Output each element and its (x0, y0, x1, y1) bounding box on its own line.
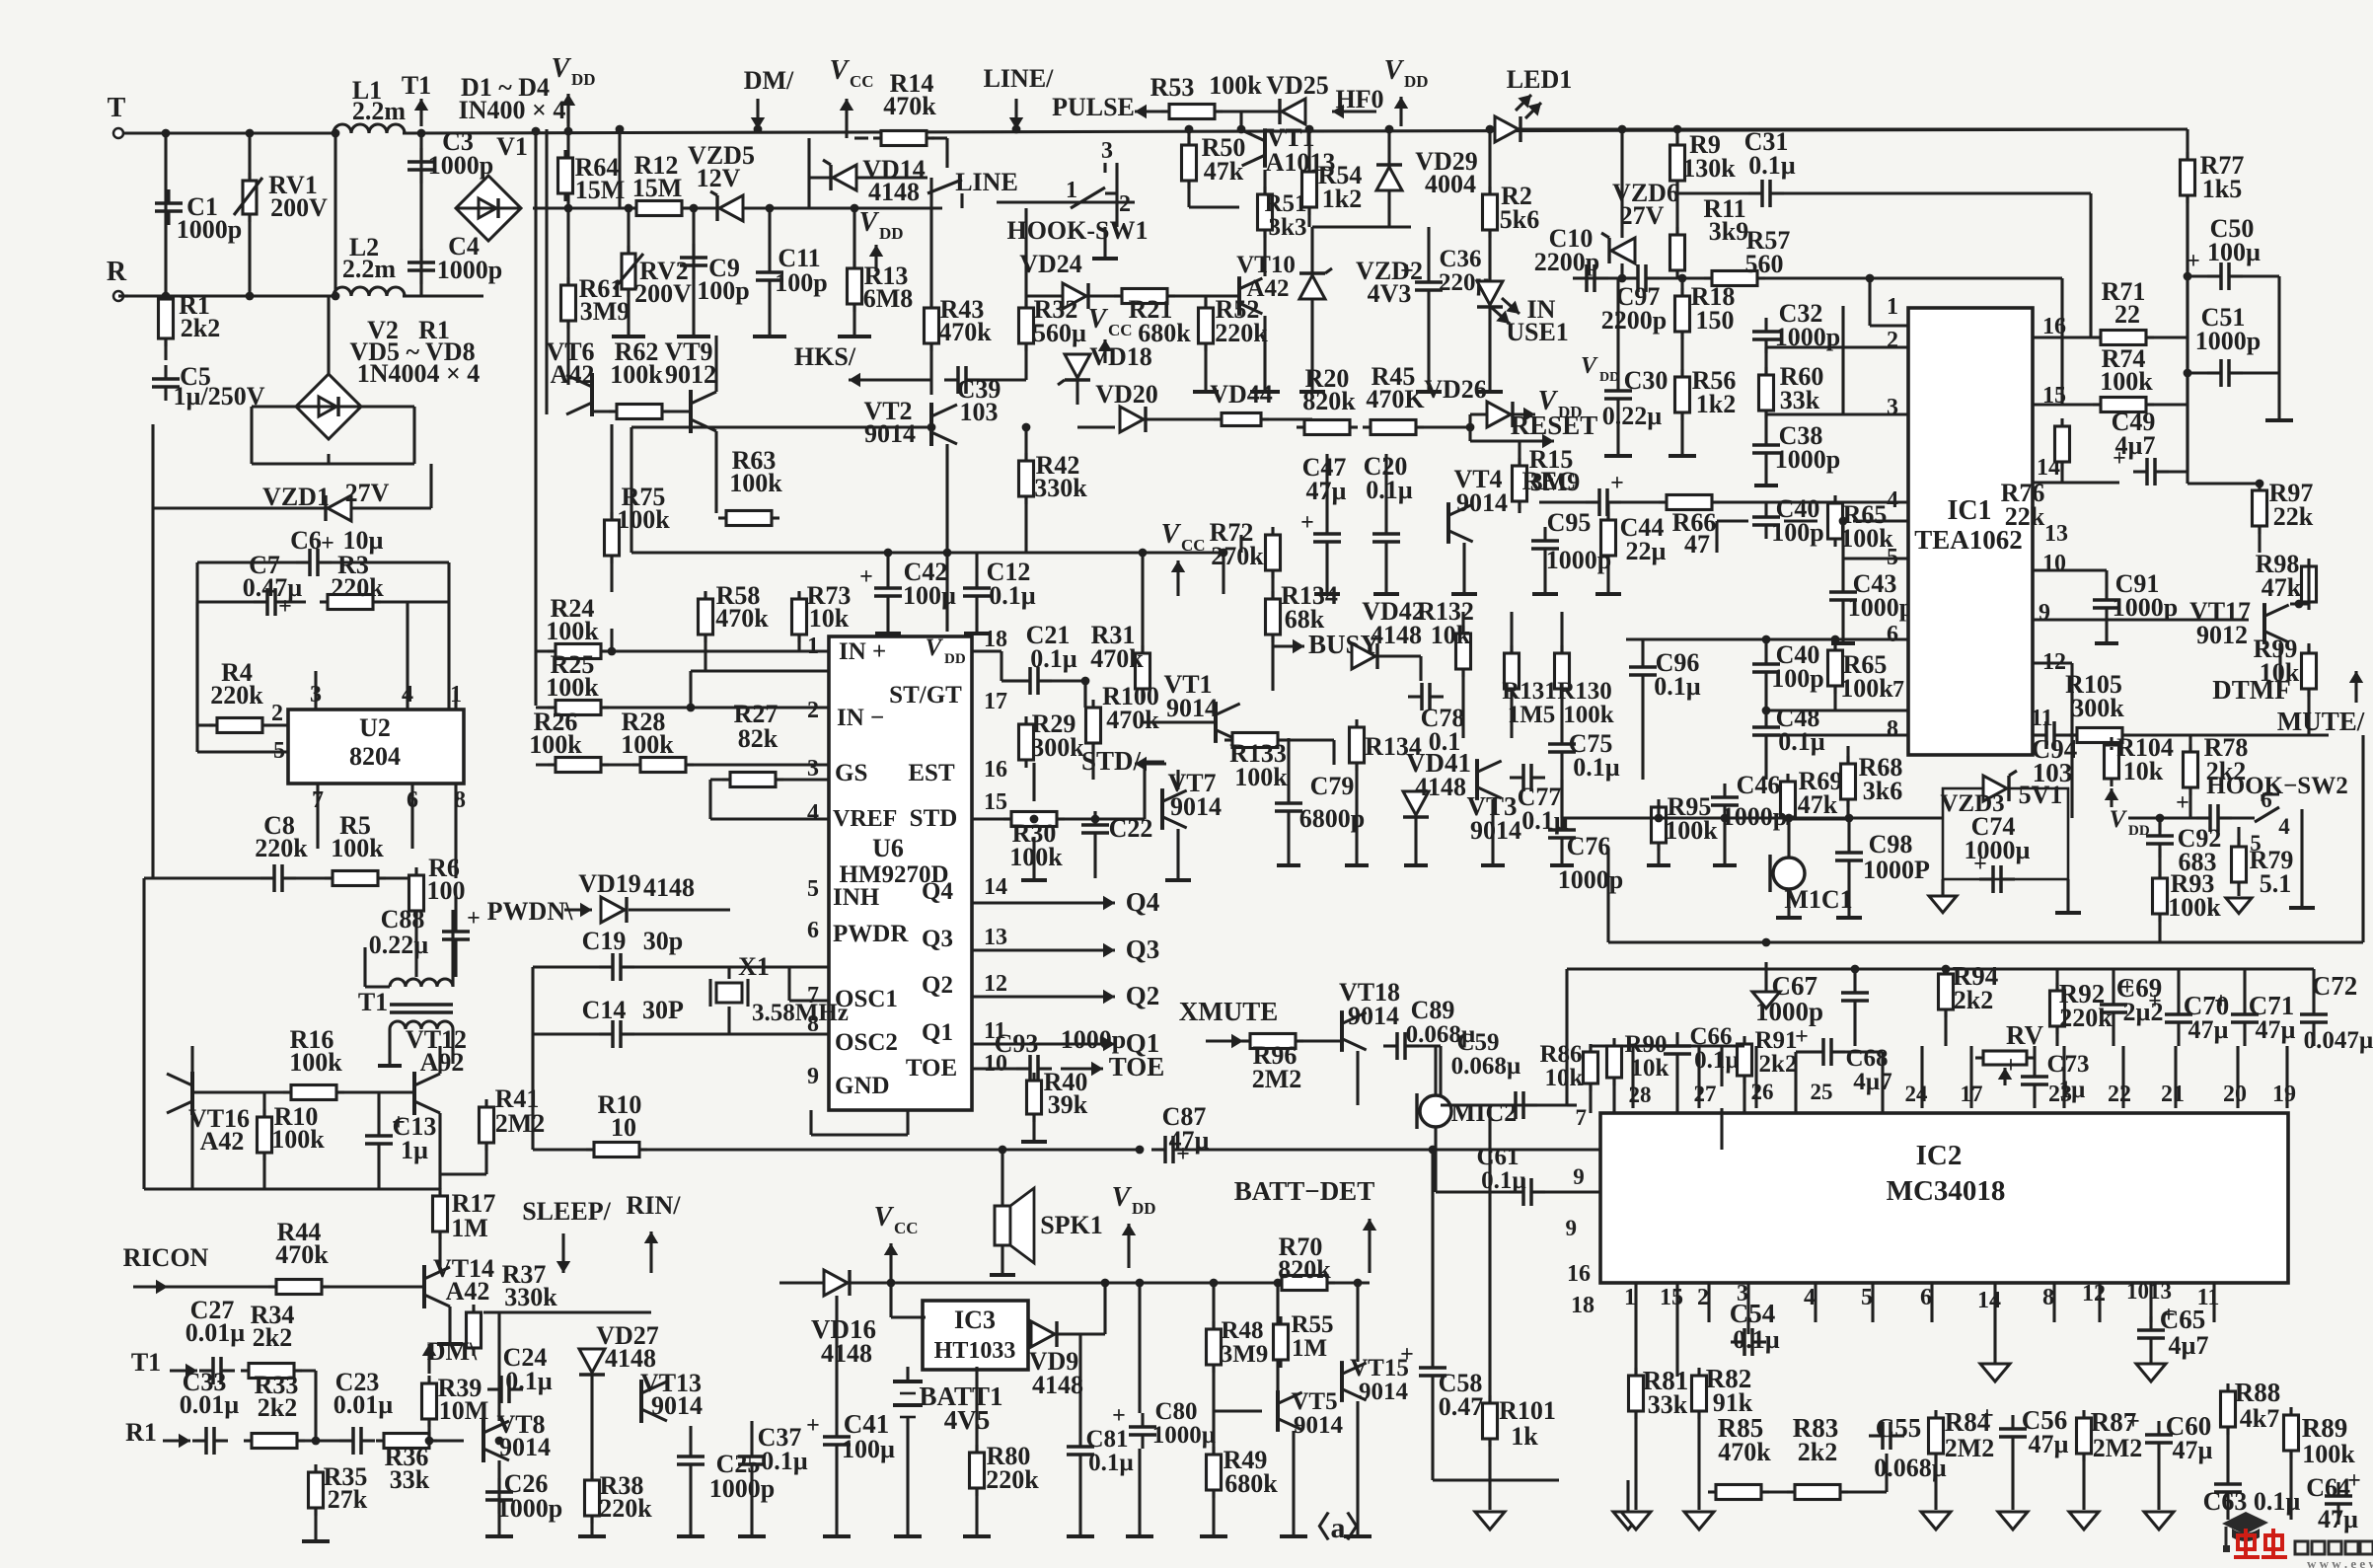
wire (1675, 1322, 1678, 1377)
diode VD16 (824, 1270, 848, 1296)
wire (1675, 129, 1678, 145)
svg-text:470k: 470k (1090, 644, 1144, 673)
svg-text:0.1µ: 0.1µ (505, 1367, 553, 1395)
ground (1092, 257, 1118, 261)
svg-text:100: 100 (427, 876, 466, 905)
svg-text:100µ: 100µ (842, 1435, 895, 1463)
wire (1766, 345, 1908, 348)
wire (1784, 519, 1817, 522)
resistor R26 (556, 758, 601, 773)
IC IC2 MC34018 (1600, 1113, 2288, 1283)
wire (1814, 1283, 1817, 1322)
wire (336, 1090, 414, 1093)
wire (835, 1458, 838, 1534)
ground tri (1921, 1512, 1951, 1530)
wire (1764, 962, 1767, 992)
wire (192, 1090, 291, 1093)
crystal X1 (716, 983, 742, 1003)
wire (2112, 969, 2114, 991)
svg-text:SPK1: SPK1 (1040, 1211, 1103, 1239)
wire (1634, 1283, 1637, 1322)
node junction (927, 423, 936, 432)
capacitor C40b (1752, 662, 1780, 666)
svg-text:1M5: 1M5 (1508, 702, 1556, 728)
wire (533, 965, 599, 968)
resistor R25 (556, 701, 601, 715)
capacitor C31 (1760, 180, 1764, 207)
wire (704, 592, 706, 599)
svg-text:22: 22 (2114, 300, 2140, 329)
capacitor C43 (1829, 590, 1857, 594)
capacitor C72 (2300, 1012, 2328, 1016)
resistor R62 (617, 405, 662, 419)
ground (677, 1534, 704, 1538)
transistor VT16 (190, 1072, 194, 1115)
wire (377, 1092, 380, 1122)
wire (484, 1143, 487, 1174)
wire (1787, 818, 1790, 858)
svg-text:9014: 9014 (1294, 1412, 1344, 1439)
wire (972, 1067, 1016, 1070)
capacitor C41 (823, 1435, 851, 1439)
wire (610, 556, 613, 592)
svg-text:2k2: 2k2 (1759, 1051, 1798, 1078)
transistor VT2 (929, 403, 933, 446)
wire (1560, 766, 1563, 816)
svg-text:+: + (1400, 1342, 1414, 1368)
node junction (2295, 600, 2304, 609)
diode VD20 (1120, 407, 1144, 432)
svg-text:21: 21 (2161, 1082, 2185, 1107)
wire (414, 911, 417, 977)
svg-text:47µ: 47µ (2188, 1015, 2229, 1044)
wire (662, 410, 691, 412)
wire (1488, 1105, 1491, 1403)
svg-text:30p: 30p (643, 927, 683, 955)
svg-text:100k: 100k (1234, 763, 1288, 791)
capacitor C56 (1999, 1427, 2027, 1431)
svg-text:4: 4 (2278, 814, 2290, 839)
wire (378, 876, 416, 879)
ground (1299, 390, 1325, 394)
wire (2123, 733, 2329, 736)
wire (891, 1315, 926, 1318)
svg-text:17: 17 (984, 689, 1007, 714)
node junction (2184, 369, 2192, 378)
node R terminal (113, 291, 123, 301)
node junction (687, 704, 696, 712)
capacitor C80 (1129, 1425, 1156, 1429)
svg-text:XMUTE: XMUTE (1179, 997, 1279, 1026)
ground (823, 1534, 851, 1538)
capacitor C59 (1514, 1091, 1518, 1119)
wire (1431, 1389, 1434, 1480)
ground (578, 1534, 606, 1538)
svg-text:8: 8 (1887, 716, 1898, 742)
svg-text:TOE: TOE (906, 1055, 957, 1082)
resistor R51 (1258, 194, 1273, 230)
svg-text:330k: 330k (504, 1283, 557, 1311)
wire (1743, 1076, 1745, 1113)
ground (1344, 1534, 1372, 1538)
diode VD44 (1222, 413, 1261, 426)
wire (2055, 969, 2058, 991)
svg-text:47k: 47k (2262, 573, 2302, 602)
resistor R14v (881, 131, 927, 146)
svg-text:0.01µ: 0.01µ (180, 1390, 240, 1419)
ground (1193, 390, 1219, 394)
capacitor C78 (1420, 683, 1424, 710)
wire (1969, 1046, 1972, 1108)
svg-text:R48: R48 (1221, 1317, 1263, 1344)
resistor R13 (848, 268, 862, 304)
capacitor C96 (1629, 665, 1657, 669)
wire T bus right (403, 129, 2188, 133)
svg-text:47k: 47k (1798, 790, 1838, 819)
wire (2277, 276, 2280, 418)
svg-text:R101: R101 (1499, 1396, 1556, 1425)
diode VD41 (1403, 791, 1429, 815)
svg-text:CC: CC (1108, 321, 1133, 339)
wire (1356, 1401, 1359, 1534)
wire (2312, 969, 2315, 1001)
node junction (1429, 1146, 1438, 1155)
svg-text:1013: 1013 (2126, 1279, 2172, 1304)
resistor R86 (1584, 1052, 1598, 1083)
wire (889, 1281, 892, 1284)
wire (197, 560, 296, 563)
resistor R56 (1675, 377, 1690, 412)
diode VD42 (1352, 643, 1375, 669)
zener VD18 (1065, 354, 1090, 378)
svg-text:27V: 27V (345, 479, 390, 507)
capacitor C77 (1521, 764, 1525, 791)
wire (710, 817, 829, 820)
capacitor C4 (408, 261, 435, 264)
wire (454, 691, 457, 709)
node junction (1185, 125, 1194, 134)
transistor VT13 (639, 1380, 643, 1423)
wire (144, 876, 260, 879)
svg-text:100k: 100k (1665, 816, 1718, 845)
svg-text:2M2: 2M2 (495, 1109, 546, 1138)
svg-text:47µ: 47µ (2029, 1430, 2069, 1458)
wire (1543, 562, 1546, 592)
wire (412, 407, 415, 464)
box VZD3 (1943, 788, 2068, 879)
resistor R97 (2253, 490, 2267, 526)
wire (1766, 412, 1908, 415)
svg-text:T1: T1 (131, 1348, 161, 1377)
resistor R11 (1670, 235, 1685, 270)
wire (1626, 637, 1908, 640)
wire (1620, 263, 1623, 278)
wire (618, 129, 621, 208)
wire (1621, 500, 1666, 503)
wire (2236, 1046, 2239, 1108)
svg-text:12: 12 (984, 971, 1007, 997)
wire (1470, 412, 1487, 415)
wire (327, 296, 330, 374)
node junction (1785, 814, 1794, 823)
wire (381, 600, 449, 603)
resistor R134b (1350, 727, 1365, 763)
wire (1387, 191, 1390, 227)
svg-text:1000µ: 1000µ (1152, 1422, 1216, 1449)
wire (1606, 849, 1609, 942)
wire (1871, 1283, 1874, 1322)
resistor R15 (1513, 466, 1527, 501)
capacitor C75 (1548, 742, 1576, 746)
node junction (1486, 125, 1495, 134)
capacitor C38 (1752, 443, 1780, 447)
svg-text:1M: 1M (451, 1214, 488, 1242)
wire (1567, 1103, 1577, 1106)
wire (168, 1285, 275, 1288)
wire (1189, 205, 1239, 208)
wire (190, 1046, 193, 1076)
ground (612, 335, 645, 338)
svg-text:100k: 100k (331, 834, 384, 862)
svg-text:0.01µ: 0.01µ (185, 1318, 246, 1347)
wire (2237, 882, 2240, 896)
logo chars (2234, 1529, 2287, 1557)
wire (1417, 425, 1470, 428)
ground (894, 1534, 922, 1538)
wire (536, 649, 555, 652)
wire (1754, 1046, 1757, 1108)
svg-text:100k: 100k (1563, 702, 1614, 728)
svg-text:R89: R89 (2302, 1413, 2348, 1443)
svg-text:1k2: 1k2 (1696, 390, 1736, 418)
zener VZD6 (1611, 238, 1635, 263)
svg-text:100k: 100k (289, 1048, 342, 1077)
svg-text:9: 9 (2039, 600, 2050, 626)
wire (1075, 817, 1145, 820)
wire (248, 133, 251, 296)
ground (2095, 641, 2118, 645)
wire (1287, 825, 1290, 863)
capacitor C73 (2021, 1075, 2048, 1079)
resistor R1 (159, 299, 174, 338)
capacitor C65 (2137, 1328, 2165, 1332)
svg-text:5k6: 5k6 (1500, 205, 1539, 234)
wire (689, 671, 692, 708)
wire (2066, 879, 2069, 913)
wire (602, 649, 829, 652)
label TOE out (1061, 1067, 1103, 1070)
node junction (162, 129, 171, 138)
svg-text:27k: 27k (328, 1485, 368, 1514)
svg-text:16: 16 (984, 757, 1007, 783)
capacitor C20 (1372, 532, 1400, 536)
capacitor C48 (1752, 725, 1780, 729)
wire (689, 1478, 692, 1534)
svg-text:DD: DD (879, 224, 904, 243)
svg-text:C55: C55 (1876, 1413, 1922, 1443)
resistor R93 (2153, 878, 2168, 914)
svg-text:470k: 470k (275, 1240, 329, 1269)
svg-text:3: 3 (1887, 395, 1898, 420)
resistor R3 (328, 595, 373, 610)
svg-text:1000P: 1000P (1863, 856, 1930, 884)
node junction (1022, 423, 1031, 432)
svg-text:220k: 220k (599, 1494, 652, 1523)
wire (197, 600, 254, 603)
wire (1439, 1046, 1442, 1105)
capacitor C61 (1521, 1178, 1525, 1206)
capacitor C92 (2208, 804, 2212, 832)
capacitor C67 (1841, 991, 1869, 995)
resistor R37 (467, 1312, 482, 1348)
wire (377, 1157, 380, 1189)
svg-text:DD: DD (1599, 370, 1619, 385)
capacitor C79 (1275, 801, 1302, 805)
wire (1846, 746, 1849, 764)
wire (1488, 1439, 1491, 1510)
wire (1794, 1052, 1797, 1113)
svg-text:3k6: 3k6 (1863, 777, 1902, 805)
svg-text:MC34018: MC34018 (1887, 1175, 2006, 1207)
svg-text:VD20: VD20 (1095, 380, 1158, 409)
wire (410, 784, 413, 849)
wire (1001, 1245, 1003, 1273)
ground (1776, 916, 1802, 920)
wire (1222, 553, 1224, 594)
svg-text:4V5: 4V5 (944, 1405, 991, 1435)
svg-text:26: 26 (1751, 1080, 1774, 1104)
svg-text:150: 150 (1696, 306, 1735, 335)
svg-text:C46: C46 (1737, 771, 1781, 799)
resistor R10c (594, 1143, 639, 1157)
wire (1847, 818, 1850, 839)
svg-text:ST/GT: ST/GT (889, 682, 962, 709)
diode VD24 (1063, 283, 1086, 309)
wire (886, 610, 889, 632)
resistor R2 (1483, 194, 1498, 230)
svg-text:2: 2 (1887, 328, 1898, 353)
ground tri (1929, 896, 1957, 913)
wire (708, 780, 711, 819)
svg-text:330k: 330k (1034, 474, 1087, 502)
resistor R40 (1027, 1081, 1042, 1114)
svg-text:0.1µ: 0.1µ (1030, 644, 1077, 673)
wire (1660, 276, 1711, 279)
wire (972, 1042, 1066, 1045)
wire (1239, 112, 1242, 129)
svg-text:Q2: Q2 (1126, 981, 1160, 1010)
wire (1325, 556, 1328, 592)
resistor R27 (730, 773, 776, 787)
svg-text:47µ: 47µ (2256, 1015, 2296, 1044)
wire (1518, 501, 1520, 513)
resistor R94 (1939, 974, 1954, 1009)
wire (1591, 1044, 1744, 1047)
IC U6 HM9270D (829, 636, 972, 1110)
wire (1788, 817, 1848, 820)
svg-text:13: 13 (984, 925, 1007, 950)
svg-text:A42: A42 (551, 360, 595, 389)
wire (1229, 738, 1232, 741)
ground (1416, 390, 1442, 394)
label Q1 out (1066, 1042, 1115, 1045)
svg-text:U6: U6 (872, 834, 904, 862)
wire (1764, 686, 1767, 710)
resistor R71 (2101, 331, 2146, 345)
ground (1126, 1534, 1153, 1538)
svg-text:100p: 100p (1771, 664, 1823, 693)
transistor VT1b (1214, 702, 1218, 743)
wire (1276, 1360, 1279, 1391)
wire (1620, 129, 1623, 238)
svg-text:IC3: IC3 (954, 1306, 996, 1334)
wire (1612, 1044, 1615, 1047)
svg-text:39k: 39k (1048, 1090, 1088, 1119)
wire (262, 1153, 265, 1189)
svg-text:1: 1 (1624, 1285, 1636, 1310)
ground (1021, 878, 1047, 882)
wire (2188, 787, 2191, 818)
node junction (1673, 125, 1682, 134)
wire (2112, 1026, 2114, 1046)
svg-text:C73: C73 (2046, 1051, 2089, 1078)
svg-text:V: V (1112, 1182, 1133, 1213)
wire (1103, 1283, 1106, 1334)
zener VZD2 (1299, 275, 1325, 299)
wire (1677, 191, 1748, 194)
svg-text:HT1033: HT1033 (934, 1338, 1016, 1364)
battery BATT1 (893, 1380, 923, 1383)
transistor VT5 (1276, 1390, 1280, 1432)
svg-text:1N4004 × 4: 1N4004 × 4 (357, 359, 481, 388)
wire (1870, 324, 1908, 327)
svg-text:1000p: 1000p (1775, 445, 1840, 474)
node junction (851, 204, 859, 213)
wire (893, 378, 931, 381)
wire (531, 967, 534, 1150)
wire (2068, 733, 2076, 736)
svg-text:0.1µ: 0.1µ (1748, 151, 1796, 180)
svg-text:VD18: VD18 (1089, 342, 1152, 371)
svg-text:A42: A42 (1246, 275, 1289, 302)
svg-text:20: 20 (2223, 1082, 2247, 1107)
svg-text:C30: C30 (1624, 366, 1669, 395)
transistor VT18 (1340, 1010, 1344, 1052)
capacitor C10 (1585, 264, 1589, 292)
microphone MIC2 (1420, 1095, 1451, 1127)
resistor R64 (558, 158, 573, 193)
capacitor C46 (1711, 795, 1739, 799)
svg-text:GND: GND (835, 1073, 890, 1099)
svg-text:TOE: TOE (1109, 1052, 1165, 1082)
node junction (754, 125, 763, 134)
wire (289, 600, 306, 603)
wire (1176, 829, 1179, 878)
resistor R48 (1207, 1329, 1222, 1365)
wire (438, 1113, 441, 1189)
ground (964, 632, 990, 635)
svg-text:IC2: IC2 (1916, 1140, 1963, 1171)
wire (2089, 193, 2092, 337)
wire (1720, 1108, 1723, 1150)
svg-text:10: 10 (2042, 551, 2066, 576)
svg-text:+: + (2126, 1409, 2140, 1435)
resistor R63 (726, 511, 772, 526)
wire (1944, 969, 1947, 974)
wire (2121, 1046, 2124, 1108)
resistor R61 (561, 285, 576, 321)
svg-text:VD26: VD26 (1424, 375, 1487, 404)
